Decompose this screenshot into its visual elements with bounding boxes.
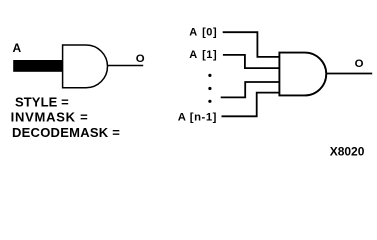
ellipsis dot 1: [208, 74, 211, 77]
wire output O (left gate): [108, 65, 144, 67]
wire A[n-1] to gate pin 4: [222, 93, 280, 117]
wire A[1] to gate pin 2: [223, 55, 280, 68]
wire output O (right gate): [326, 73, 372, 75]
svg-text:X8020: X8020: [330, 145, 365, 159]
wire unlabeled input to gate pin 3: [221, 82, 280, 97]
svg-text:A: A: [13, 41, 22, 55]
wire A[0] to gate pin 1: [223, 32, 280, 57]
svg-text:O: O: [136, 53, 145, 65]
ellipsis dot 3: [208, 100, 211, 103]
svg-text:DECODEMASK =: DECODEMASK =: [12, 125, 120, 140]
svg-text:A [0]: A [0]: [189, 27, 217, 39]
wire bus A (thick input bus): [13, 60, 63, 72]
and-gate U1 (left, bus form): [63, 45, 108, 88]
svg-text:A [1]: A [1]: [189, 49, 217, 61]
and-gate U2 (right, expanded form): [279, 53, 326, 96]
ellipsis dot 2: [208, 87, 211, 90]
svg-text:A [n-1]: A [n-1]: [178, 111, 217, 123]
svg-text:INVMASK =: INVMASK =: [11, 110, 89, 125]
svg-text:O: O: [355, 58, 364, 70]
svg-text:STYLE =: STYLE =: [15, 95, 69, 110]
